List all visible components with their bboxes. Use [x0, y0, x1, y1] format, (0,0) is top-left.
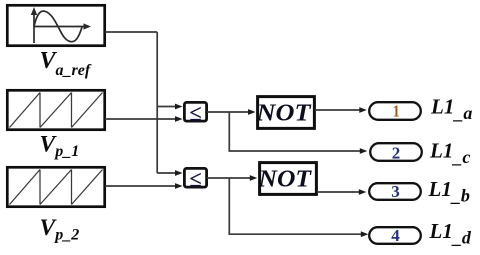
svg-text:Vp_1: Vp_1 — [40, 132, 80, 160]
wire branch U1 output down to outport 2 with arrowhead — [229, 112, 367, 154]
relational operator U2 (less-equal) — [184, 166, 206, 191]
wire trunk branch to U1 input 1 with arrowhead — [157, 104, 182, 110]
svg-text:2: 2 — [392, 144, 401, 163]
svg-text:Va_ref: Va_ref — [40, 48, 92, 79]
Va_ref icon axis arrowheads — [31, 7, 91, 30]
svg-text:NOT: NOT — [257, 166, 312, 193]
relational operator U1 (less-equal) — [184, 100, 206, 125]
Vp_1 sawtooth icon — [10, 93, 103, 128]
carrier block Vp_1 — [7, 90, 104, 129]
wire U2 output to NOT U4 with arrowhead — [207, 175, 257, 181]
svg-text:L1_d: L1_d — [429, 219, 472, 248]
wire U1 output to NOT U3 with arrowhead — [207, 109, 256, 115]
outport 3 — [369, 182, 421, 201]
carrier block Vp_2 — [7, 167, 104, 206]
wire trunk corner to U2 input 1 with arrowhead — [157, 170, 182, 176]
outport 4 — [369, 226, 421, 245]
svg-text:1: 1 — [393, 102, 400, 121]
svg-text:≤: ≤ — [189, 100, 201, 125]
source block Va_ref — [7, 5, 104, 45]
wire U4 output to outport 3 with arrowhead — [317, 189, 366, 195]
outport 1 — [369, 102, 421, 121]
svg-text:3: 3 — [391, 182, 400, 201]
svg-text:≤: ≤ — [189, 166, 201, 191]
svg-text:4: 4 — [391, 226, 400, 245]
wire Va_ref output to vertical trunk — [105, 32, 157, 173]
svg-text:L1_a: L1_a — [430, 95, 472, 124]
outport 2 — [370, 143, 422, 162]
svg-text:NOT: NOT — [255, 100, 311, 127]
svg-text:L1_c: L1_c — [429, 138, 470, 167]
wire branch U2 output down to outport 4 with arrowhead — [229, 178, 368, 237]
wire Vp_2 output to U2 input 2 with arrowhead — [105, 183, 183, 189]
Vp_2 sawtooth icon — [10, 170, 103, 205]
Va_ref sine wave icon — [34, 11, 87, 43]
NOT gate U3 — [255, 97, 314, 129]
svg-text:L1_b: L1_b — [428, 177, 470, 206]
NOT gate U4 — [257, 163, 316, 195]
wire U3 output to outport 1 with arrowhead — [315, 107, 367, 113]
wire Vp_1 output to U1 input 2 with arrowhead — [105, 116, 183, 122]
svg-text:Vp_2: Vp_2 — [40, 215, 80, 243]
